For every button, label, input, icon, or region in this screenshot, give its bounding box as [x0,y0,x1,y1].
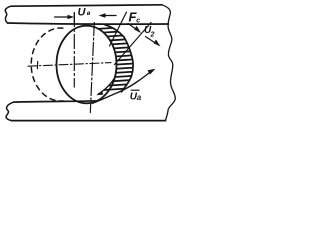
svg-text:U: U [78,7,87,19]
velocity envelope curve [98,78,114,94]
ball (solid circle) [57,26,117,104]
horizontal centerline (dash-dot) [28,63,111,67]
U2 reference line [115,23,152,65]
vertical centerline of ball (dash-dot) [90,23,94,113]
Fc leader line [110,12,127,46]
svg-text:2: 2 [150,32,155,39]
centerline tick (left cross) [36,62,38,69]
hatch lines [76,26,140,92]
va arrow (tangent velocity) [93,72,152,104]
dashed circle (previous ball position) [31,28,63,101]
crescent outer boundary arc [105,25,134,92]
U2 arrow [128,24,140,32]
Ub arrow (top plate velocity) [55,16,70,18]
svg-text:в: в [87,11,91,17]
top plate lower line [8,23,169,24]
svg-text:c: c [136,17,140,24]
bottom plate lower line [12,120,166,122]
top plate left break edge [5,6,11,23]
right break edge (wavy) [162,5,175,121]
top plate upper line [11,5,162,6]
bottom plate upper line [13,101,97,102]
Fc arrow (force on top plate, leftward) [102,15,117,17]
svg-text:a: a [137,93,142,102]
bottom plate left break edge [6,102,13,120]
tick at arrow tip [73,13,75,23]
envelope end arrowhead [96,91,103,95]
secondary vertical dash-dot line [73,13,75,88]
